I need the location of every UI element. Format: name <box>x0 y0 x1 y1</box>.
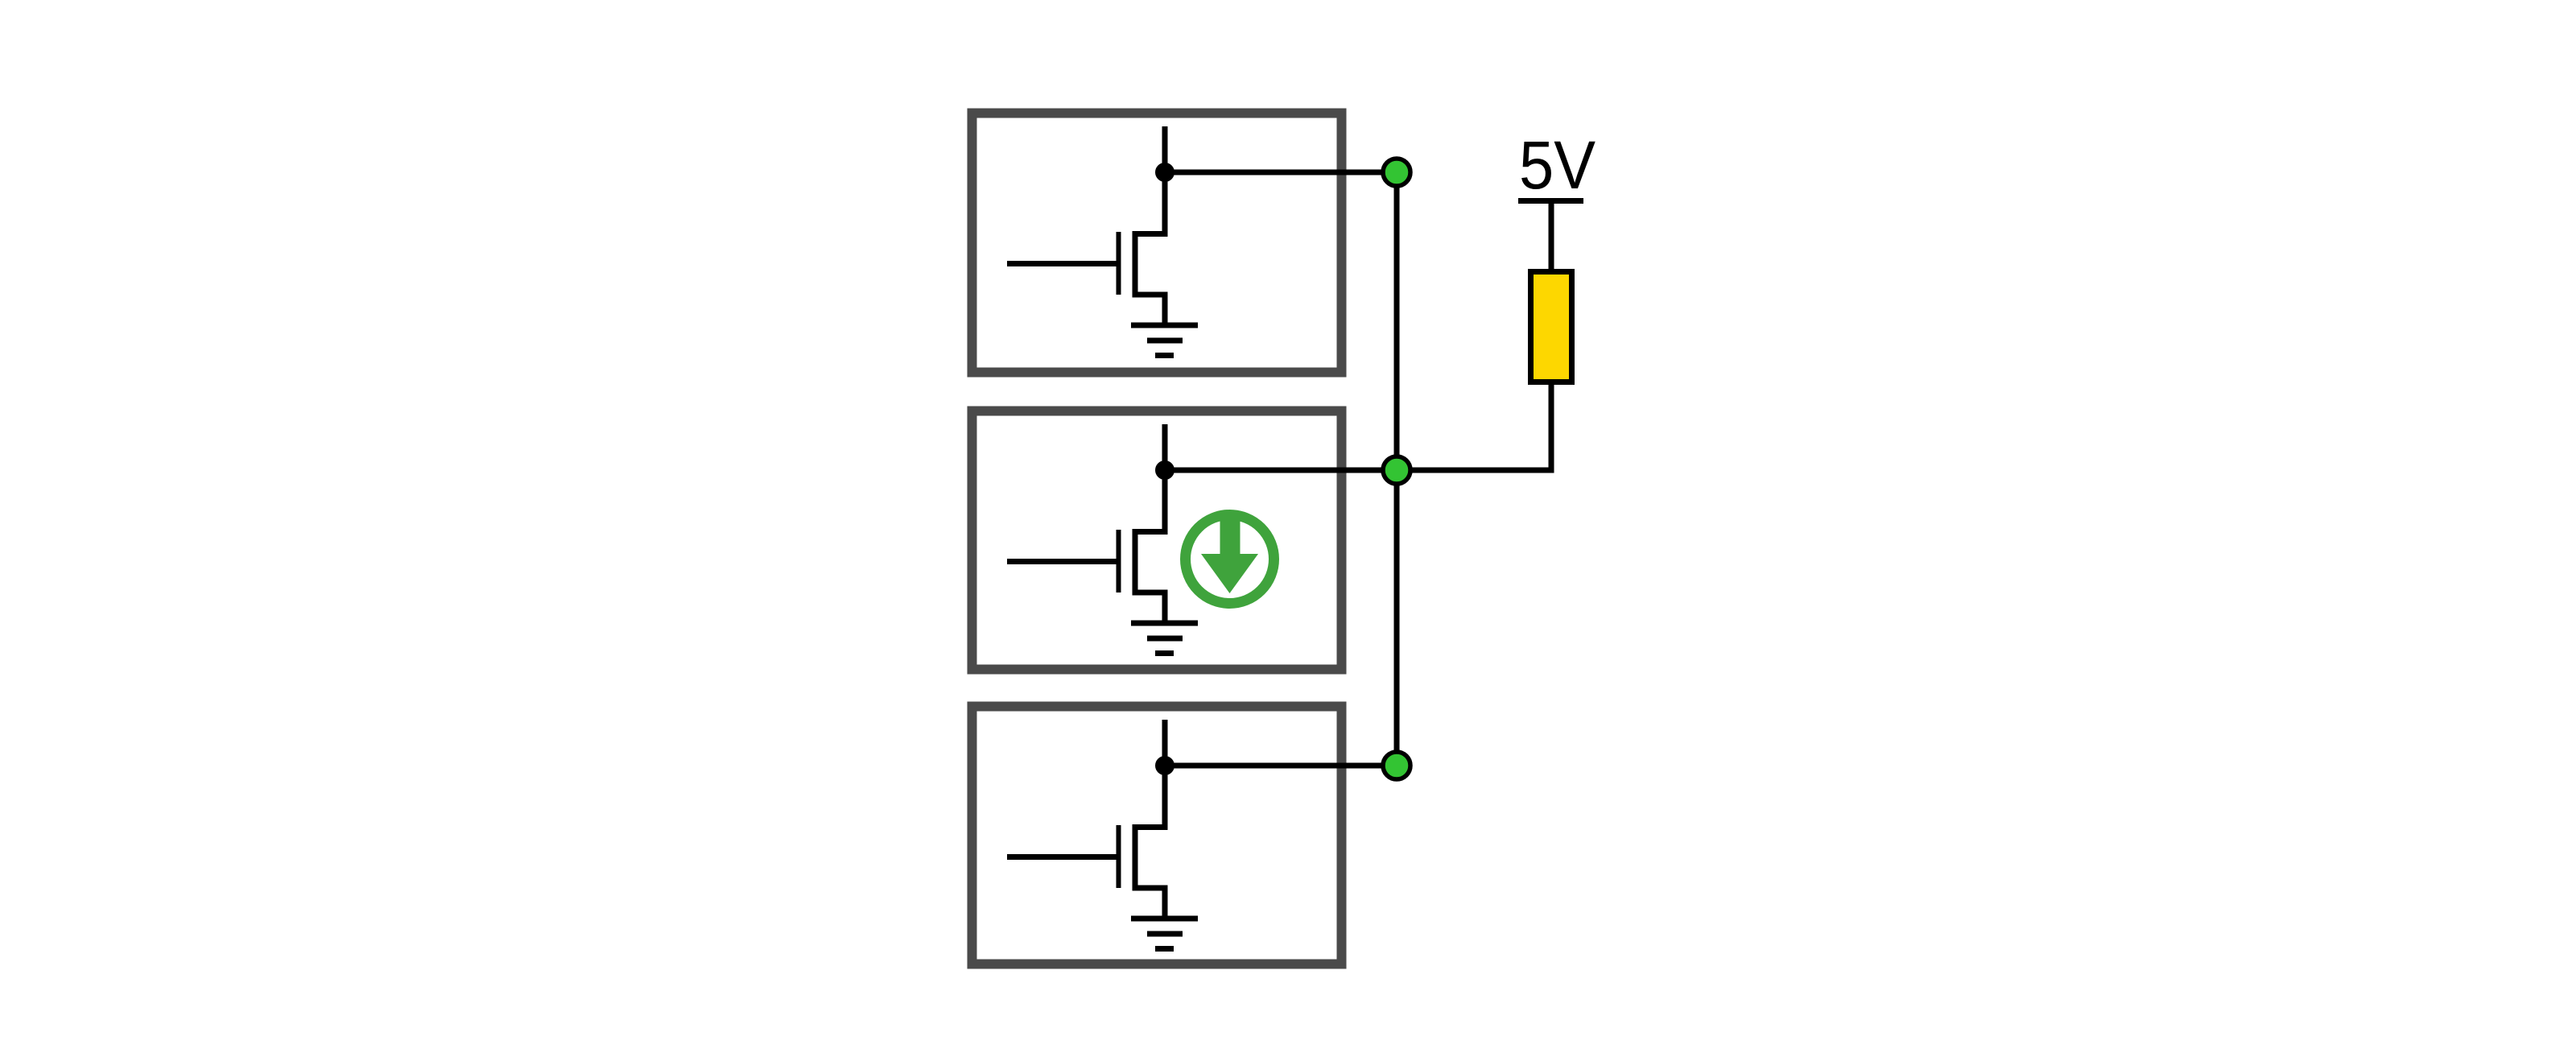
5V supply bar <box>1518 198 1583 204</box>
svg-text:5V: 5V <box>1519 127 1596 203</box>
device box U2 <box>972 411 1342 670</box>
wire gate Q3 <box>1007 854 1117 860</box>
transistor Q3 <box>1119 824 1168 889</box>
junction dot box 2 <box>1155 460 1174 480</box>
wire drain Q2 <box>1162 424 1168 532</box>
device box U3 <box>972 707 1342 964</box>
ground GND1 <box>1131 325 1198 356</box>
wire source Q3 <box>1162 888 1168 919</box>
ground GND2 <box>1131 623 1198 654</box>
bus wire <box>1394 172 1400 766</box>
ground GND3 <box>1131 919 1198 949</box>
node 2 <box>1383 456 1410 484</box>
wire gate Q1 <box>1007 261 1117 266</box>
junction dot box 1 <box>1155 163 1174 182</box>
node 1 <box>1383 159 1410 186</box>
wire box2 to bus <box>1165 468 1397 473</box>
device box U1 <box>972 114 1342 373</box>
wire source Q1 <box>1162 295 1168 325</box>
wire resistor to node 2 <box>1397 382 1551 471</box>
wire box1 to bus <box>1165 170 1397 175</box>
wire box3 to bus <box>1165 763 1397 769</box>
wire gate Q2 <box>1007 559 1117 564</box>
resistor R1 pull-up <box>1531 272 1572 382</box>
node 3 <box>1383 752 1410 779</box>
wire source Q2 <box>1162 592 1168 623</box>
wire drain Q1 <box>1162 126 1168 234</box>
wire drain Q3 <box>1162 720 1168 828</box>
transistor Q1 <box>1119 231 1168 295</box>
wire supply to resistor <box>1549 204 1554 272</box>
transistor Q2 <box>1119 529 1168 593</box>
current arrow icon <box>1186 515 1274 604</box>
junction dot box 3 <box>1155 756 1174 775</box>
